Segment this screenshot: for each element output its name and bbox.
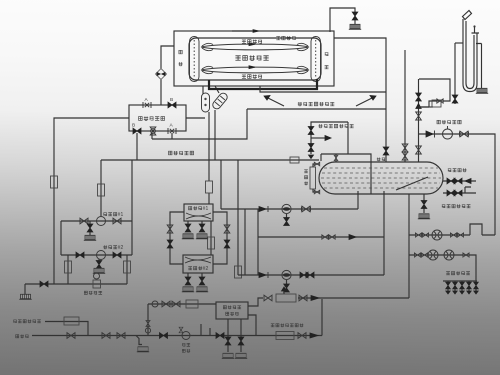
svg-text:2: 2 (121, 245, 124, 251)
svg-text:2: 2 (206, 266, 209, 272)
svg-text:B: B (170, 97, 173, 103)
svg-text:A: A (145, 97, 149, 103)
svg-text:A: A (170, 123, 174, 129)
svg-text:1: 1 (121, 212, 124, 218)
svg-text:B: B (132, 123, 135, 129)
svg-text:1: 1 (206, 206, 209, 212)
